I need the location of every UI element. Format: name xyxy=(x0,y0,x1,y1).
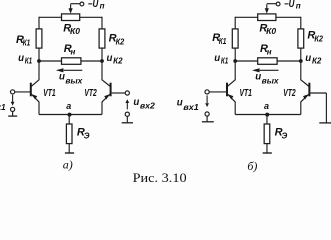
resistor RK0 (circuit b) xyxy=(258,14,276,21)
transistor VT2 base bar (circuit a) xyxy=(110,83,112,97)
resistor RN load (circuit a) xyxy=(62,58,81,65)
node a (circuit a) xyxy=(68,113,72,117)
terminal uvx2 bottom (circuit a) xyxy=(125,112,129,116)
wire input1 to VT1 base (circuit b) xyxy=(209,91,227,93)
svg-text:Э: Э xyxy=(281,131,287,140)
arrow uvx1 (circuit b) xyxy=(206,95,208,103)
wire top rail (circuit b) xyxy=(235,16,301,18)
arrow uvyh (circuit b) xyxy=(260,69,279,71)
terminal uvx1 bottom (circuit b) xyxy=(205,112,209,116)
svg-text:u: u xyxy=(214,53,220,64)
node a (circuit b) xyxy=(265,113,269,117)
wire RK1 to node uK1 (circuit b) xyxy=(234,48,236,61)
resistor RE (circuit b) xyxy=(264,124,270,144)
terminal uvx1 top (circuit a) xyxy=(11,90,15,94)
resistor RK2 (circuit a) xyxy=(99,29,105,48)
wire right branch upper (circuit a) xyxy=(101,17,103,29)
wire collector row (circuit b) xyxy=(235,60,301,62)
svg-text:вых: вых xyxy=(65,77,83,86)
resistor RN load (circuit b) xyxy=(258,58,277,65)
wire VT2 base to input2 (circuit a) xyxy=(112,92,126,94)
wire left branch upper (circuit b) xyxy=(234,17,236,29)
svg-text:a: a xyxy=(264,101,269,111)
svg-text:п: п xyxy=(296,2,301,11)
node uK2 (circuit b) xyxy=(299,59,303,63)
terminal -Un (circuit b) xyxy=(276,2,280,6)
terminal uvx1 top (circuit b) xyxy=(205,90,209,94)
wire wiper to -Un terminal (circuit a) xyxy=(71,3,81,5)
transistor VT1 collector (circuit b) xyxy=(227,80,235,87)
svg-text:вых: вых xyxy=(262,77,280,86)
svg-text:н: н xyxy=(267,47,272,56)
svg-text:u: u xyxy=(18,53,24,64)
ground under uvx1 (circuit b) xyxy=(206,116,208,122)
svg-text:VT1: VT1 xyxy=(240,88,253,99)
terminal uvx1 bottom (circuit a) xyxy=(11,107,15,111)
svg-text:К1: К1 xyxy=(25,57,33,66)
wire VT2 base to right ground (circuit b) xyxy=(310,92,326,94)
wire RK2 to node uK2 (circuit b) xyxy=(300,48,302,61)
svg-text:u: u xyxy=(305,53,311,64)
svg-text:К1: К1 xyxy=(23,39,31,48)
wire node a to RE (circuit a) xyxy=(68,115,70,125)
wire RK1 to node uK1 (circuit a) xyxy=(38,48,40,61)
transistor VT2 collector (circuit b) xyxy=(301,80,309,87)
transistor VT2 base bar (circuit b) xyxy=(308,83,310,97)
wire right branch upper (circuit b) xyxy=(300,17,302,29)
wire emitter rail (circuit a) xyxy=(39,114,102,116)
resistor RK1 (circuit b) xyxy=(232,29,238,48)
svg-text:u: u xyxy=(133,97,139,108)
wiper arrow of RK0 (circuit b) xyxy=(266,4,268,8)
ground right edge (circuit b) xyxy=(319,122,331,124)
wire input1 to VT1 base (circuit a) xyxy=(15,91,31,93)
svg-text:вх1: вх1 xyxy=(0,103,6,112)
svg-text:Э: Э xyxy=(84,131,90,140)
wire RK2 to node uK2 (circuit a) xyxy=(101,48,103,61)
svg-text:К2: К2 xyxy=(113,57,123,66)
svg-text:a: a xyxy=(66,101,71,111)
svg-text:u: u xyxy=(177,98,183,109)
transistor VT2 collector (circuit a) xyxy=(102,80,110,87)
svg-text:К2: К2 xyxy=(314,35,323,44)
arrow uvyh (circuit a) xyxy=(64,69,83,71)
svg-text:К0: К0 xyxy=(70,27,81,36)
svg-text:u: u xyxy=(59,72,65,83)
svg-text:Рис. 3.10: Рис. 3.10 xyxy=(133,170,187,185)
arrow uvx1 (circuit a) xyxy=(12,95,14,102)
resistor RK1 (circuit a) xyxy=(36,29,42,48)
svg-text:u: u xyxy=(107,53,113,64)
arrow uvx2 up (circuit a) xyxy=(126,103,128,109)
wire emitter rail (circuit b) xyxy=(235,114,301,116)
terminal -Un (circuit a) xyxy=(80,2,84,6)
resistor RE (circuit a) xyxy=(66,124,72,144)
svg-text:−U: −U xyxy=(88,0,99,10)
svg-text:VT2: VT2 xyxy=(283,88,296,99)
ground under uvx2 (circuit a) xyxy=(126,116,128,122)
ground under uvx1 (circuit a) xyxy=(12,112,14,116)
transistor VT1 base bar (circuit b) xyxy=(226,83,228,97)
svg-text:VT1: VT1 xyxy=(43,88,56,99)
svg-text:К2: К2 xyxy=(312,57,322,66)
ground under RE (circuit a) xyxy=(65,152,74,154)
wire collector row (circuit a) xyxy=(39,60,102,62)
ground under RE (circuit b) xyxy=(263,152,272,154)
wire RE to ground (circuit a) xyxy=(68,144,70,153)
svg-text:н: н xyxy=(71,47,76,56)
svg-text:u: u xyxy=(255,72,261,83)
svg-text:а): а) xyxy=(63,158,73,172)
svg-text:вх1: вх1 xyxy=(183,103,199,112)
svg-text:п: п xyxy=(100,2,105,11)
resistor RK0 (circuit a) xyxy=(62,14,80,21)
node uK2 (circuit a) xyxy=(100,59,104,63)
transistor VT2 emitter (circuit a) xyxy=(102,94,110,102)
transistor VT1 emitter (circuit b) xyxy=(227,94,235,102)
wire node a to RE (circuit b) xyxy=(266,115,268,125)
transistor VT1 base bar (circuit a) xyxy=(30,83,32,97)
transistor VT1 collector (circuit a) xyxy=(31,80,39,87)
wire RE to ground (circuit b) xyxy=(266,144,268,153)
transistor VT2 emitter (circuit b) xyxy=(301,94,309,102)
svg-text:−U: −U xyxy=(284,0,295,10)
svg-text:К0: К0 xyxy=(266,27,277,36)
wire wiper to -Un terminal (circuit b) xyxy=(267,3,277,5)
transistor VT1 emitter (circuit a) xyxy=(31,94,39,102)
wire left branch upper (circuit a) xyxy=(38,17,40,29)
resistor RK2 (circuit b) xyxy=(298,29,304,48)
svg-text:вх2: вх2 xyxy=(140,102,156,111)
svg-text:VT2: VT2 xyxy=(84,88,97,99)
wire top rail (circuit a) xyxy=(39,16,102,18)
node uK1 (circuit a) xyxy=(37,59,41,63)
node uK1 (circuit b) xyxy=(233,59,237,63)
svg-text:К1: К1 xyxy=(219,37,227,46)
terminal uvx2 top (circuit a) xyxy=(125,91,129,95)
svg-text:К1: К1 xyxy=(221,57,229,66)
svg-text:б): б) xyxy=(247,159,257,173)
wiper arrow of RK0 (circuit a) xyxy=(70,4,72,8)
svg-text:К2: К2 xyxy=(116,38,125,47)
